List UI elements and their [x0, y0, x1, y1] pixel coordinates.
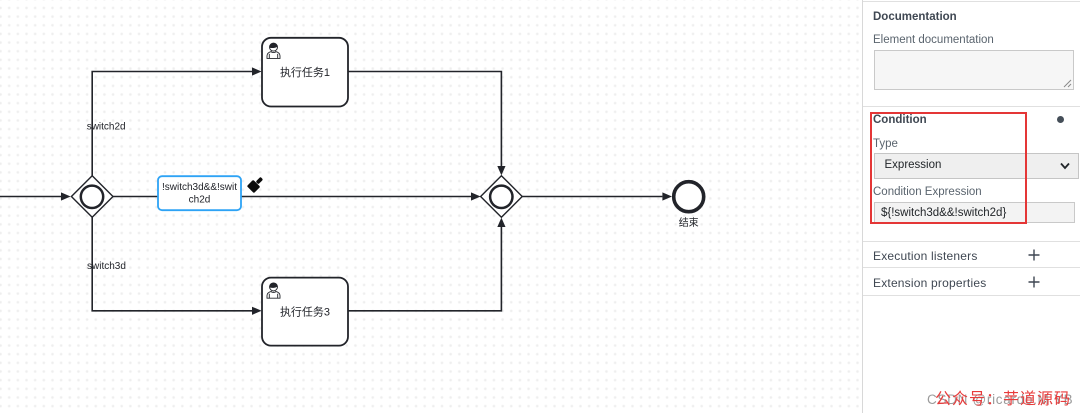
user task 执行任务1: [262, 38, 348, 107]
divider: [863, 241, 1080, 242]
select Expression: [874, 153, 1079, 179]
svg-text:结束: 结束: [679, 216, 699, 229]
section header Documentation: [873, 11, 957, 23]
inclusive gateway G1: [71, 176, 113, 218]
BPMN diagram: [0, 0, 862, 413]
section header Condition: [873, 114, 927, 126]
input condition expression: [874, 202, 1075, 223]
wire task 3 to gateway G2: [348, 218, 506, 311]
end event 结束: [674, 182, 704, 229]
group Extension properties: [873, 276, 986, 290]
selected flow label !switch3d&&!switch2d: [158, 176, 241, 210]
svg-text:!switch3d&&!swit: !switch3d&&!swit: [162, 182, 237, 193]
wire gateway G2 to end event: [522, 192, 672, 200]
wire gateway G1 to gateway G2 (middle): [113, 192, 481, 200]
label Element documentation: [873, 34, 994, 46]
label Condition Expression: [873, 186, 982, 198]
divider: [863, 106, 1080, 107]
wire incoming main flow: [0, 192, 71, 200]
textarea element documentation: [874, 50, 1074, 90]
plus icon: [1028, 276, 1040, 288]
svg-text:switch2d: switch2d: [87, 122, 126, 133]
watermark red 公众号：芋道源码: [935, 385, 1071, 409]
group Execution listeners: [873, 249, 978, 263]
user task 执行任务3: [262, 278, 348, 346]
label Type: [873, 138, 898, 150]
wire gateway G1 bottom to task 3: [92, 217, 261, 315]
svg-text:switch3d: switch3d: [87, 261, 126, 272]
user icon of task 3: [267, 283, 280, 298]
plus icon: [1028, 249, 1040, 261]
svg-text:执行任务1: 执行任务1: [280, 65, 330, 79]
watermark CSDN gray: [927, 392, 1073, 407]
svg-text:ch2d: ch2d: [189, 194, 211, 205]
properties panel: [862, 0, 1080, 413]
edited dot indicator: [1057, 116, 1064, 123]
wire task 1 to gateway G2: [348, 72, 506, 176]
wire gateway G1 top to task 1: [92, 67, 261, 175]
panel top border: [863, 1, 1080, 2]
inclusive gateway G2: [481, 176, 523, 218]
canvas dot grid: [0, 0, 862, 413]
user icon of task 1: [267, 43, 280, 58]
paintbrush icon: [247, 175, 266, 194]
svg-text:执行任务3: 执行任务3: [280, 304, 330, 318]
divider: [863, 295, 1080, 296]
divider: [863, 267, 1080, 268]
red highlight box around Condition group: [870, 112, 1028, 225]
